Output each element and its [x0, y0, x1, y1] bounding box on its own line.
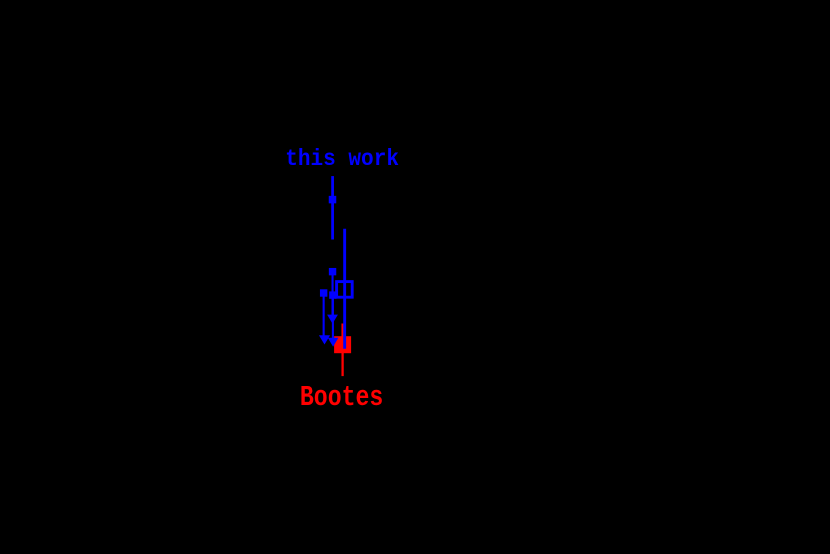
upper limit B: blue filled square: [329, 291, 336, 298]
upper limit C: arrow shaft: [323, 293, 325, 339]
upper limit A: blue filled square: [329, 268, 336, 275]
upper limit C: blue filled square: [320, 289, 327, 296]
marker: blue open square: [337, 282, 353, 298]
error bar (red, Bootes point): [341, 324, 343, 377]
svg-text:this work: this work: [285, 146, 399, 172]
marker: blue filled square (top point): [329, 196, 337, 204]
upper limit A: arrow shaft: [331, 272, 333, 318]
svg-text:Bootes: Bootes: [300, 381, 383, 414]
upper limit B: arrowhead: [328, 338, 339, 347]
upper limit B: arrow shaft: [332, 295, 334, 341]
error bar (blue, top point): [331, 176, 334, 239]
upper limit C: arrowhead: [319, 335, 330, 344]
error bar (blue, long, open-square point): [343, 229, 346, 349]
marker: red filled square (Bootes): [334, 336, 351, 353]
upper limit A: arrowhead: [327, 315, 338, 324]
